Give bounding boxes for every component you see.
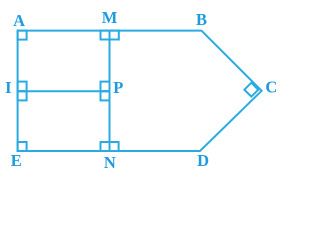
svg-text:E: E: [11, 151, 22, 170]
svg-text:A: A: [13, 11, 25, 30]
svg-text:M: M: [102, 8, 118, 27]
svg-text:B: B: [196, 10, 207, 29]
svg-text:P: P: [113, 78, 123, 97]
svg-text:D: D: [197, 151, 209, 170]
svg-text:I: I: [5, 78, 11, 97]
svg-text:C: C: [265, 78, 277, 97]
svg-text:N: N: [104, 153, 116, 172]
